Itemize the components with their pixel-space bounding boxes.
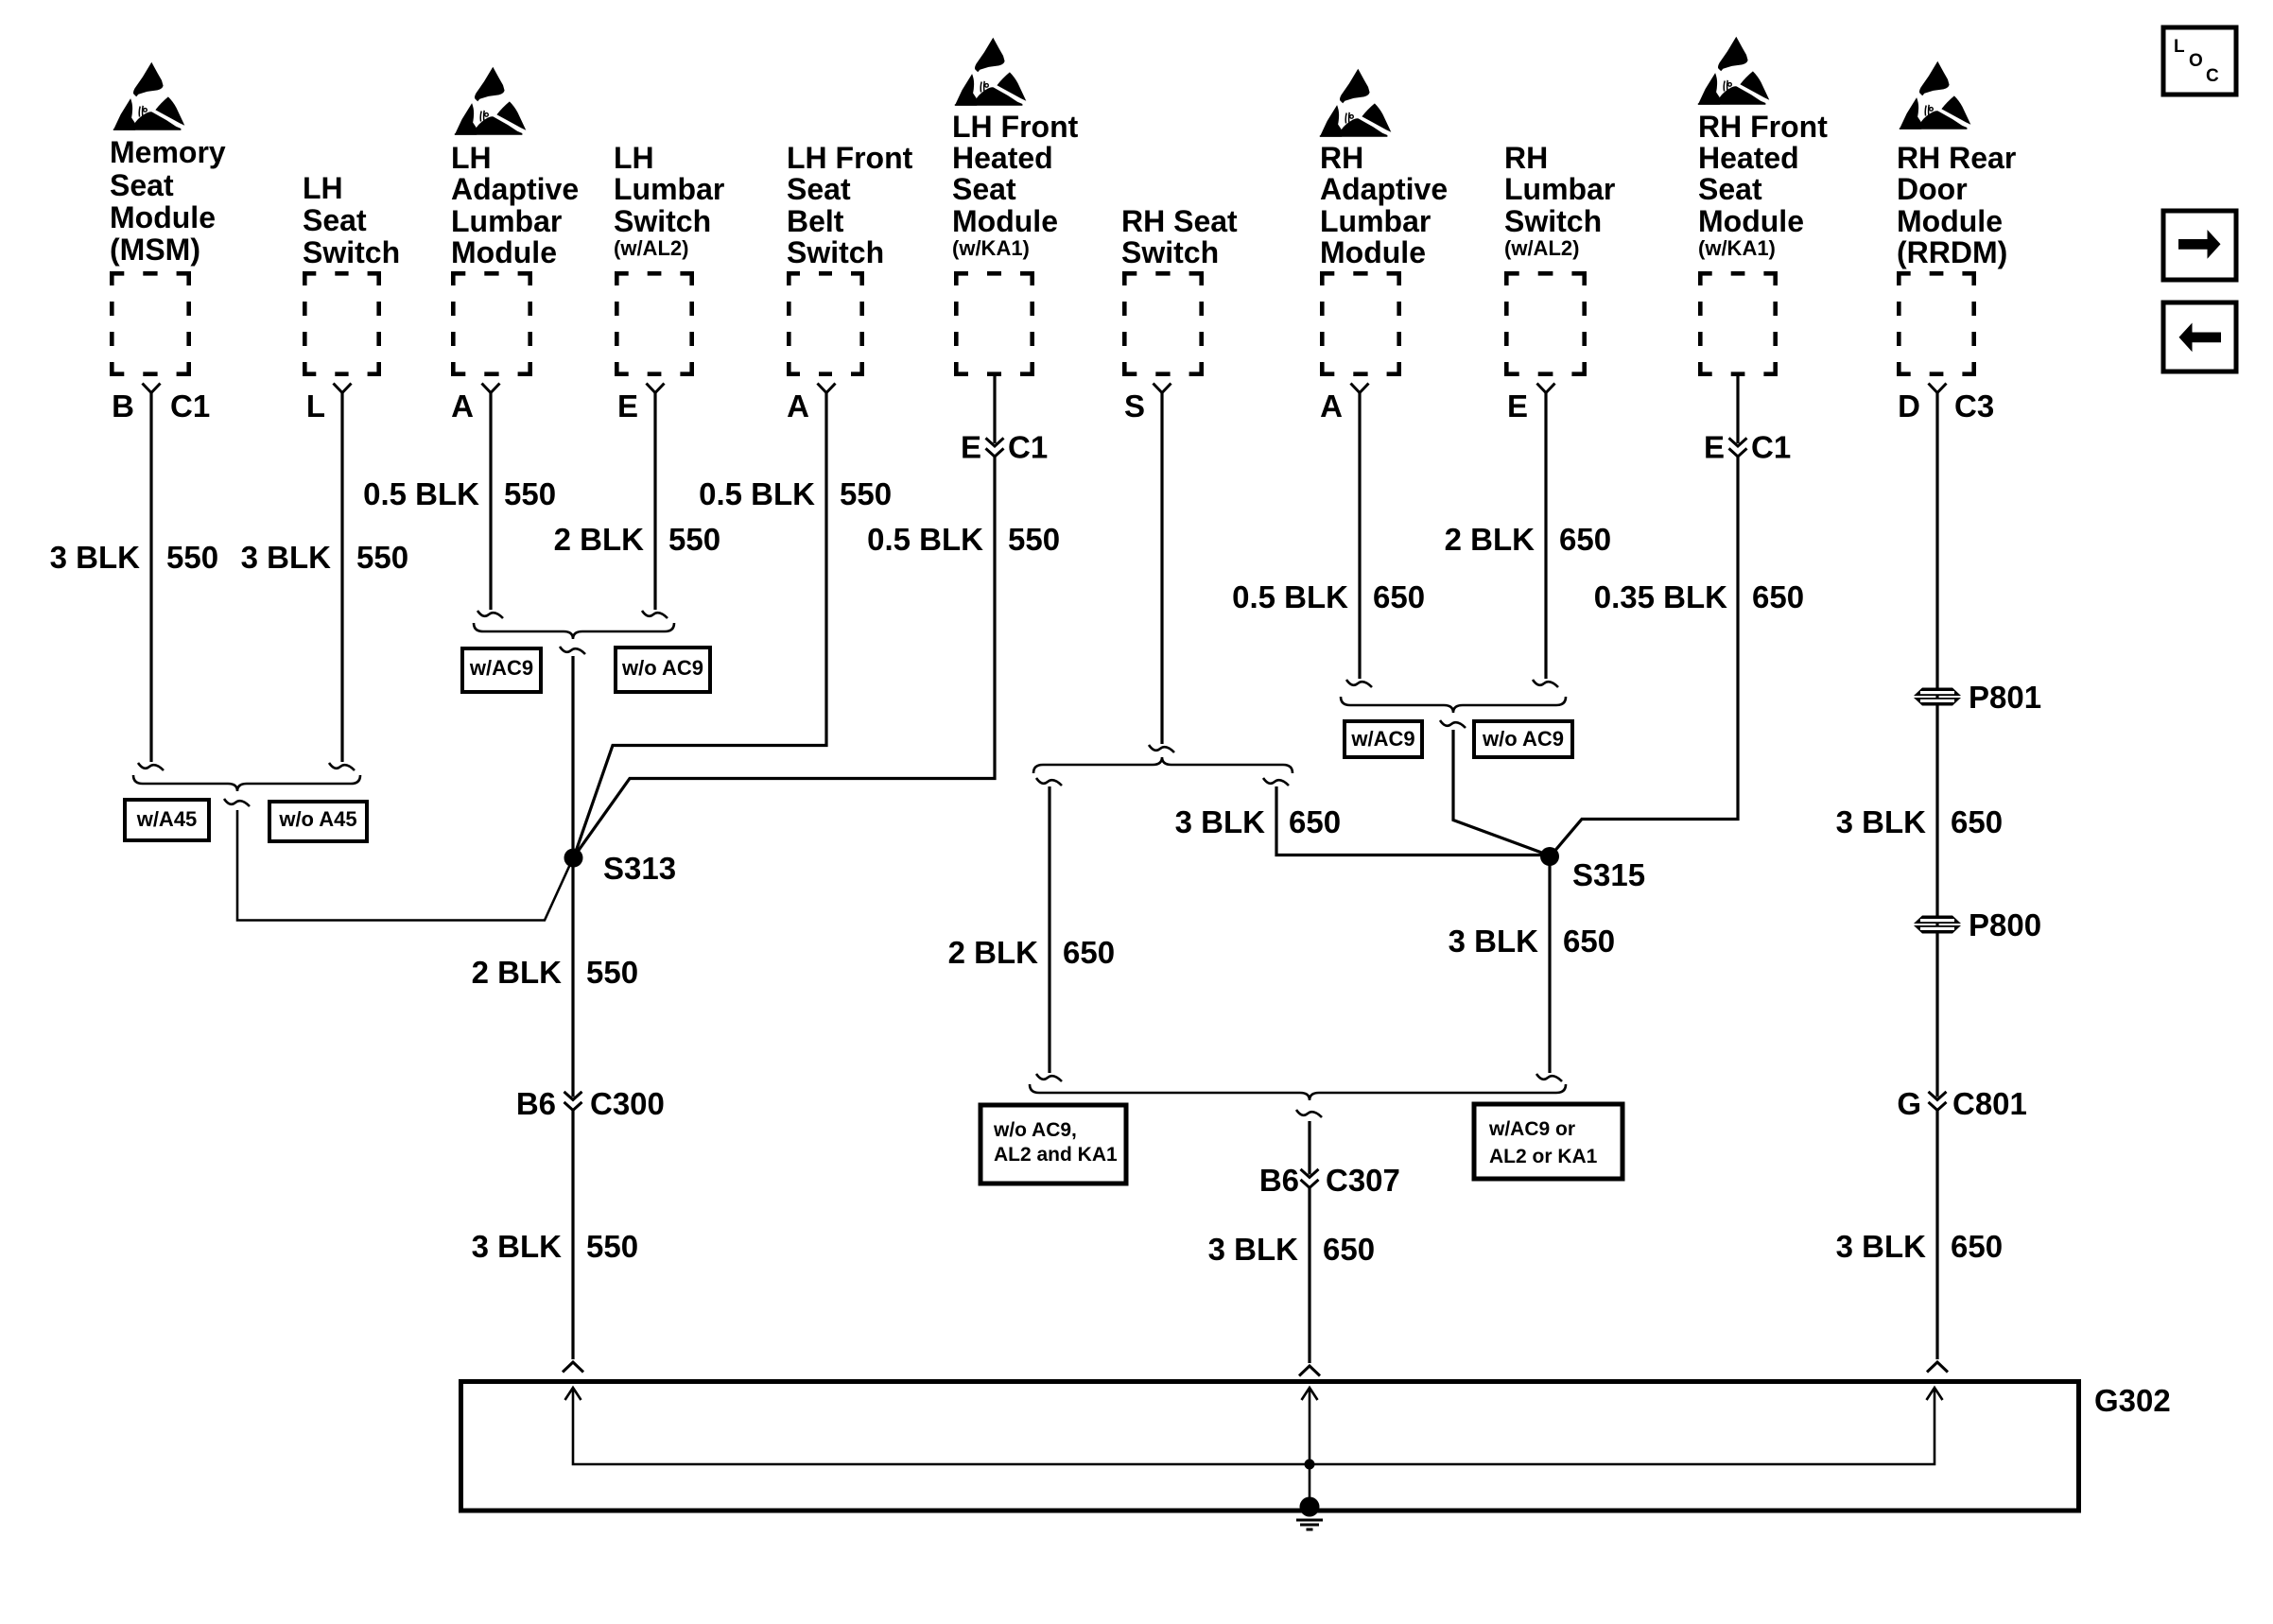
svg-text:550: 550 — [166, 540, 218, 575]
legend: LOC box — [2163, 27, 2236, 95]
svg-text:2 BLK: 2 BLK — [948, 935, 1039, 970]
svg-text:650: 650 — [1063, 935, 1115, 970]
wire label: 3 BLK 650 (to S315) — [1175, 804, 1341, 839]
svg-text:S313: S313 — [603, 851, 676, 886]
svg-text:w/AC9 or: w/AC9 or — [1488, 1118, 1575, 1140]
svg-text:P800: P800 — [1969, 907, 2041, 942]
connector box: LH Lumbar Switch — [615, 271, 694, 376]
brace: AC9 merge LH — [474, 623, 674, 639]
connector box: LH Front Heated Seat Module — [954, 271, 1034, 376]
svg-text:RH Rear: RH Rear — [1897, 141, 2016, 175]
wire: P800 to C801 — [1935, 937, 1938, 1097]
pin fork: RH Adaptive Lumbar Module — [1351, 384, 1369, 393]
svg-text:w/AC9: w/AC9 — [469, 656, 533, 680]
svg-text:650: 650 — [1289, 804, 1341, 839]
svg-text:Seat: Seat — [1698, 172, 1762, 206]
wire: LH Seat Switch pin L down — [340, 393, 343, 763]
svg-text:Module: Module — [451, 235, 557, 269]
wire: C300 to ground box — [571, 1111, 574, 1360]
pin fork: LH Adaptive Lumbar Module — [482, 384, 500, 393]
ESD icon: Memory Seat Module — [113, 62, 185, 130]
label: LH Front Seat Belt Switch — [787, 141, 913, 269]
svg-text:(w/AL2): (w/AL2) — [614, 236, 688, 260]
inline connector: B6 C307 — [1301, 1169, 1319, 1188]
label: RH Adaptive Lumbar Module — [1320, 141, 1448, 269]
wire: P801 to P800 — [1935, 706, 1938, 912]
svg-text:650: 650 — [1323, 1232, 1375, 1267]
svg-text:AL2 and KA1: AL2 and KA1 — [994, 1144, 1118, 1166]
svg-text:w/AC9: w/AC9 — [1350, 727, 1414, 751]
svg-text:0.5 BLK: 0.5 BLK — [363, 476, 479, 511]
wire end curl — [1536, 1074, 1562, 1081]
ground symbol hatches — [1296, 1520, 1323, 1529]
wire end curl — [329, 763, 355, 770]
svg-text:C1: C1 — [1008, 430, 1048, 465]
pin fork: MSM — [143, 384, 161, 393]
wire: brace to C307 — [1308, 1121, 1310, 1175]
svg-text:C3: C3 — [1954, 389, 1994, 423]
svg-text:3 BLK: 3 BLK — [1175, 804, 1266, 839]
wire label: 3 BLK 650 (above G302 middle) — [1208, 1232, 1375, 1267]
svg-text:550: 550 — [840, 476, 892, 511]
svg-text:D: D — [1898, 389, 1920, 423]
wire: A45 merge down and right to S313 — [237, 810, 572, 921]
wire label: 2 BLK 550 (LH Lumbar Switch) — [554, 522, 720, 557]
label: LH Lumbar Switch (w/AL2) — [614, 141, 724, 238]
inline connector: E C1 (RH) — [1729, 438, 1747, 457]
brace: AC9 merge RH — [1341, 697, 1566, 713]
brace: bottom merge to C307 — [1030, 1084, 1566, 1100]
inline connector: P800 — [1935, 912, 1938, 937]
svg-text:LH Front: LH Front — [787, 141, 913, 175]
svg-text:Lumbar: Lumbar — [1504, 172, 1615, 206]
svg-text:A: A — [451, 389, 474, 423]
svg-text:B: B — [112, 389, 134, 423]
junction dot on bus — [1305, 1460, 1315, 1470]
connector box: LH Seat Switch — [303, 271, 381, 376]
svg-text:550: 550 — [586, 1229, 638, 1264]
wire: MSM pin B down — [149, 393, 152, 763]
curl under brace — [1296, 1110, 1322, 1117]
svg-text:Switch: Switch — [303, 235, 400, 269]
svg-text:650: 650 — [1563, 924, 1615, 959]
svg-text:550: 550 — [1008, 522, 1060, 557]
ground box G302 — [461, 1382, 2079, 1512]
connector box: RH Seat Switch — [1122, 271, 1204, 376]
wire label: 3 BLK 650 (below S315) — [1449, 924, 1615, 959]
svg-text:Switch: Switch — [1504, 204, 1602, 238]
ESD icon: RH Rear Door Module — [1900, 61, 1971, 130]
label: LH Seat Switch — [303, 171, 400, 269]
wire end curl — [1346, 680, 1372, 687]
svg-text:C1: C1 — [170, 389, 210, 423]
svg-text:C300: C300 — [590, 1086, 665, 1121]
wire: left sub-wire 2 BLK 650 — [1048, 786, 1050, 1073]
ESD icon: LH Adaptive Lumbar Module — [455, 67, 527, 135]
svg-text:0.5 BLK: 0.5 BLK — [867, 522, 983, 557]
svg-text:(w/KA1): (w/KA1) — [1698, 236, 1776, 260]
svg-text:C1: C1 — [1751, 430, 1791, 465]
svg-text:Module: Module — [110, 200, 216, 234]
svg-text:3 BLK: 3 BLK — [1208, 1232, 1299, 1267]
label: LH Adaptive Lumbar Module — [451, 141, 579, 269]
pin fork: RH Lumbar Switch — [1537, 384, 1555, 393]
wire label: 3 BLK 550 (LH Seat Switch) — [241, 540, 408, 575]
legend: right-arrow box — [2163, 211, 2236, 280]
pin fork: LH Front Seat Belt Switch — [818, 384, 836, 393]
svg-text:3 BLK: 3 BLK — [1836, 804, 1927, 839]
svg-text:Memory: Memory — [110, 135, 226, 169]
svg-text:B6: B6 — [516, 1086, 556, 1121]
wire: RH Front Heated Seat Module down — [1736, 376, 1739, 443]
svg-text:G: G — [1897, 1086, 1921, 1121]
svg-text:E: E — [617, 389, 638, 423]
wire label: 3 BLK 650 (RRDM) — [1836, 804, 2003, 839]
curl top of left sub-wire — [1036, 778, 1062, 786]
svg-text:3 BLK: 3 BLK — [50, 540, 141, 575]
curl under brace — [1440, 720, 1466, 728]
wire: LH Front Heated Seat Module down — [993, 376, 996, 443]
svg-text:(MSM): (MSM) — [110, 233, 200, 267]
wire: LH Adaptive Lumbar pin A down — [489, 393, 492, 611]
svg-text:(w/KA1): (w/KA1) — [952, 236, 1030, 260]
inline connector: B6 C300 — [564, 1092, 582, 1111]
inline connector: P801 — [1935, 687, 1938, 706]
svg-text:Switch: Switch — [614, 204, 711, 238]
svg-text:Module: Module — [952, 204, 1058, 238]
option box: w/o A45 — [269, 802, 367, 841]
svg-text:3 BLK: 3 BLK — [1449, 924, 1539, 959]
svg-text:A: A — [787, 389, 809, 423]
svg-text:Seat: Seat — [787, 172, 851, 206]
option box: w/o AC9 (LH) — [616, 648, 710, 692]
svg-text:B6: B6 — [1259, 1163, 1299, 1198]
arrowhead right — [1927, 1388, 1943, 1400]
svg-text:RH: RH — [1320, 141, 1363, 175]
wire end curl — [642, 611, 668, 618]
wire label: 2 BLK 650 — [948, 935, 1115, 970]
pin fork: RRDM — [1929, 384, 1947, 393]
option box: w/o AC9 (RH) — [1474, 721, 1572, 757]
svg-text:C307: C307 — [1326, 1163, 1400, 1198]
label: Memory Seat Module (MSM) — [110, 135, 226, 267]
svg-text:C: C — [2206, 66, 2219, 86]
svg-text:0.35 BLK: 0.35 BLK — [1594, 579, 1727, 614]
connector box: Memory Seat Module — [110, 271, 191, 376]
brace: RH seat switch split (inverted) — [1033, 757, 1293, 773]
ESD icon: RH Front Heated Seat Module — [1698, 37, 1770, 105]
svg-text:S: S — [1124, 389, 1145, 423]
connector box: RH Adaptive Lumbar Module — [1320, 271, 1401, 376]
ground bus wire inside box — [573, 1389, 1935, 1464]
wire label: 3 BLK 650 (above G302 right) — [1836, 1229, 2003, 1264]
wire end curl — [477, 611, 503, 618]
svg-text:Door: Door — [1897, 172, 1968, 206]
svg-text:LH: LH — [451, 141, 492, 175]
svg-text:E: E — [1704, 430, 1725, 465]
wire label: 0.5 BLK 550 (Belt Switch) — [699, 476, 892, 511]
ground splice dot — [1300, 1497, 1320, 1517]
svg-text:550: 550 — [356, 540, 408, 575]
wire: AC9 merge down to S315 — [1453, 730, 1547, 855]
pin fork: RH Seat Switch — [1154, 384, 1171, 393]
ESD icon: RH Adaptive Lumbar Module — [1320, 69, 1392, 137]
svg-text:650: 650 — [1752, 579, 1804, 614]
svg-text:RH: RH — [1504, 141, 1548, 175]
ESD icon: LH Front Heated Seat Module — [955, 38, 1027, 106]
svg-text:3 BLK: 3 BLK — [1836, 1229, 1927, 1264]
svg-text:w/o AC9: w/o AC9 — [621, 656, 703, 680]
svg-text:Switch: Switch — [1121, 235, 1219, 269]
legend: left-arrow box — [2163, 302, 2236, 371]
wire: RRDM pin down — [1935, 393, 1938, 688]
connector box: RH Front Heated Seat Module — [1698, 271, 1778, 376]
svg-text:Lumbar: Lumbar — [451, 204, 562, 238]
svg-text:Lumbar: Lumbar — [1320, 204, 1431, 238]
entry chevron right — [1927, 1362, 1948, 1373]
svg-text:Adaptive: Adaptive — [1320, 172, 1448, 206]
svg-text:O: O — [2189, 51, 2203, 71]
svg-text:Lumbar: Lumbar — [614, 172, 724, 206]
curl under brace — [224, 799, 250, 806]
svg-text:0.5 BLK: 0.5 BLK — [1232, 579, 1348, 614]
svg-text:C801: C801 — [1952, 1086, 2027, 1121]
svg-text:0.5 BLK: 0.5 BLK — [699, 476, 815, 511]
svg-text:Module: Module — [1897, 204, 2003, 238]
wire: main S313 vertical — [571, 656, 574, 1097]
svg-text:Seat: Seat — [952, 172, 1016, 206]
wire: right sub-wire to S315 — [1276, 786, 1543, 855]
connector box: RH Lumbar Switch — [1504, 271, 1587, 376]
svg-text:(w/AL2): (w/AL2) — [1504, 236, 1579, 260]
option box: w/AC9 (RH) — [1345, 721, 1422, 757]
inline connector: E C1 — [986, 438, 1004, 457]
wire label: 0.5 BLK 550 (LH Adaptive) — [363, 476, 556, 511]
inline connector: G C801 — [1929, 1092, 1947, 1111]
svg-text:RH Seat: RH Seat — [1121, 204, 1238, 238]
svg-text:w/o AC9: w/o AC9 — [1482, 727, 1564, 751]
connector box: LH Adaptive Lumbar Module — [451, 271, 532, 376]
wire: RH Seat Switch pin S down — [1160, 393, 1163, 745]
wire: below S315 — [1548, 856, 1551, 1073]
svg-text:Switch: Switch — [787, 235, 884, 269]
svg-text:G302: G302 — [2094, 1383, 2171, 1418]
svg-text:L: L — [2174, 37, 2185, 57]
svg-text:LH Front: LH Front — [952, 110, 1079, 144]
svg-text:(RRDM): (RRDM) — [1897, 235, 2007, 269]
svg-text:E: E — [961, 430, 981, 465]
pin labels: B / C1 — [112, 389, 210, 423]
brace: w/A45 merge — [133, 775, 360, 791]
wire label: 2 BLK 550 (below S313) — [472, 955, 638, 990]
pin fork: LH Seat Switch — [334, 384, 352, 393]
splice dot S313 — [564, 849, 583, 868]
wire label: 0.35 BLK 650 — [1594, 579, 1804, 614]
label: RH Seat Switch — [1121, 204, 1238, 269]
wire end curl — [1149, 745, 1174, 752]
svg-text:650: 650 — [1951, 804, 2003, 839]
svg-text:Heated: Heated — [952, 141, 1053, 175]
curl top of right sub-wire — [1263, 778, 1289, 786]
wire: RH Lumbar Switch pin E down — [1544, 393, 1547, 680]
svg-text:P801: P801 — [1969, 680, 2041, 715]
arrowhead middle — [1302, 1388, 1318, 1400]
svg-text:550: 550 — [504, 476, 556, 511]
wire label: 3 BLK 550 (above G302) — [472, 1229, 638, 1264]
svg-text:Heated: Heated — [1698, 141, 1799, 175]
wire: C307 to ground box — [1308, 1188, 1310, 1364]
wire: RH Adaptive Lumbar pin A down — [1358, 393, 1361, 680]
svg-text:Adaptive: Adaptive — [451, 172, 579, 206]
svg-text:650: 650 — [1559, 522, 1611, 557]
entry chevron left — [563, 1362, 583, 1373]
wire: LH Lumbar Switch pin E down — [653, 393, 656, 611]
svg-text:550: 550 — [668, 522, 720, 557]
option box: w/A45 — [125, 800, 209, 840]
svg-text:S315: S315 — [1572, 857, 1645, 892]
svg-text:Module: Module — [1320, 235, 1426, 269]
svg-text:w/A45: w/A45 — [136, 807, 198, 831]
svg-text:Seat: Seat — [303, 203, 367, 237]
label: RH Rear Door Module (RRDM) — [1897, 141, 2016, 269]
svg-text:Module: Module — [1698, 204, 1804, 238]
svg-text:w/o AC9,: w/o AC9, — [993, 1119, 1077, 1141]
wire label: 0.5 BLK 650 — [1232, 579, 1425, 614]
svg-text:w/o A45: w/o A45 — [278, 807, 356, 831]
wire label: 3 BLK 550 (MSM) — [50, 540, 218, 575]
svg-text:AL2 or KA1: AL2 or KA1 — [1489, 1146, 1598, 1167]
label: LH Front Heated Seat Module (w/KA1) — [952, 110, 1079, 238]
svg-text:3 BLK: 3 BLK — [241, 540, 332, 575]
connector box: LH Front Seat Belt Switch — [787, 271, 864, 376]
svg-text:LH: LH — [303, 171, 343, 205]
pin labels: D / C3 — [1898, 389, 1994, 423]
svg-text:Belt: Belt — [787, 204, 844, 238]
svg-text:L: L — [306, 389, 325, 423]
svg-text:650: 650 — [1951, 1229, 2003, 1264]
svg-text:650: 650 — [1373, 579, 1425, 614]
wire end curl — [1533, 680, 1558, 687]
curl under brace — [560, 647, 585, 654]
svg-text:RH Front: RH Front — [1698, 110, 1828, 144]
svg-text:Seat: Seat — [110, 168, 174, 202]
svg-text:LH: LH — [614, 141, 654, 175]
option box: w/AC9 or AL2 or KA1 — [1474, 1104, 1622, 1179]
wire end curl — [1036, 1074, 1062, 1081]
wire: LH Front Seat Belt Switch pin A down, left, to S313 — [575, 393, 827, 856]
pin fork: LH Lumbar Switch — [647, 384, 665, 393]
wire label: 2 BLK 650 — [1445, 522, 1611, 557]
wire: below C1 down, left, to S313 — [575, 457, 995, 855]
option box: w/AC9 (LH) — [462, 648, 541, 692]
svg-text:3 BLK: 3 BLK — [472, 1229, 563, 1264]
svg-text:A: A — [1320, 389, 1343, 423]
wire: C801 to ground box — [1935, 1111, 1938, 1360]
svg-text:E: E — [1507, 389, 1528, 423]
splice dot S315 — [1540, 847, 1559, 866]
svg-text:2 BLK: 2 BLK — [554, 522, 645, 557]
arrowhead left — [565, 1388, 581, 1400]
wire label: 0.5 BLK 550 (Heated Seat) — [867, 522, 1060, 557]
label: RH Front Heated Seat Module (w/KA1) — [1698, 110, 1828, 238]
middle ground stem — [1309, 1389, 1311, 1506]
wire end curl — [138, 763, 164, 770]
svg-text:2 BLK: 2 BLK — [472, 955, 563, 990]
option box: w/o AC9, AL2 and KA1 — [980, 1105, 1126, 1183]
svg-text:550: 550 — [586, 955, 638, 990]
svg-text:2 BLK: 2 BLK — [1445, 522, 1536, 557]
label: RH Lumbar Switch (w/AL2) — [1504, 141, 1615, 238]
connector box: RH Rear Door Module — [1897, 271, 1976, 376]
entry chevron middle — [1299, 1366, 1320, 1376]
wire: below C1 down, left, to S315 — [1553, 457, 1738, 854]
